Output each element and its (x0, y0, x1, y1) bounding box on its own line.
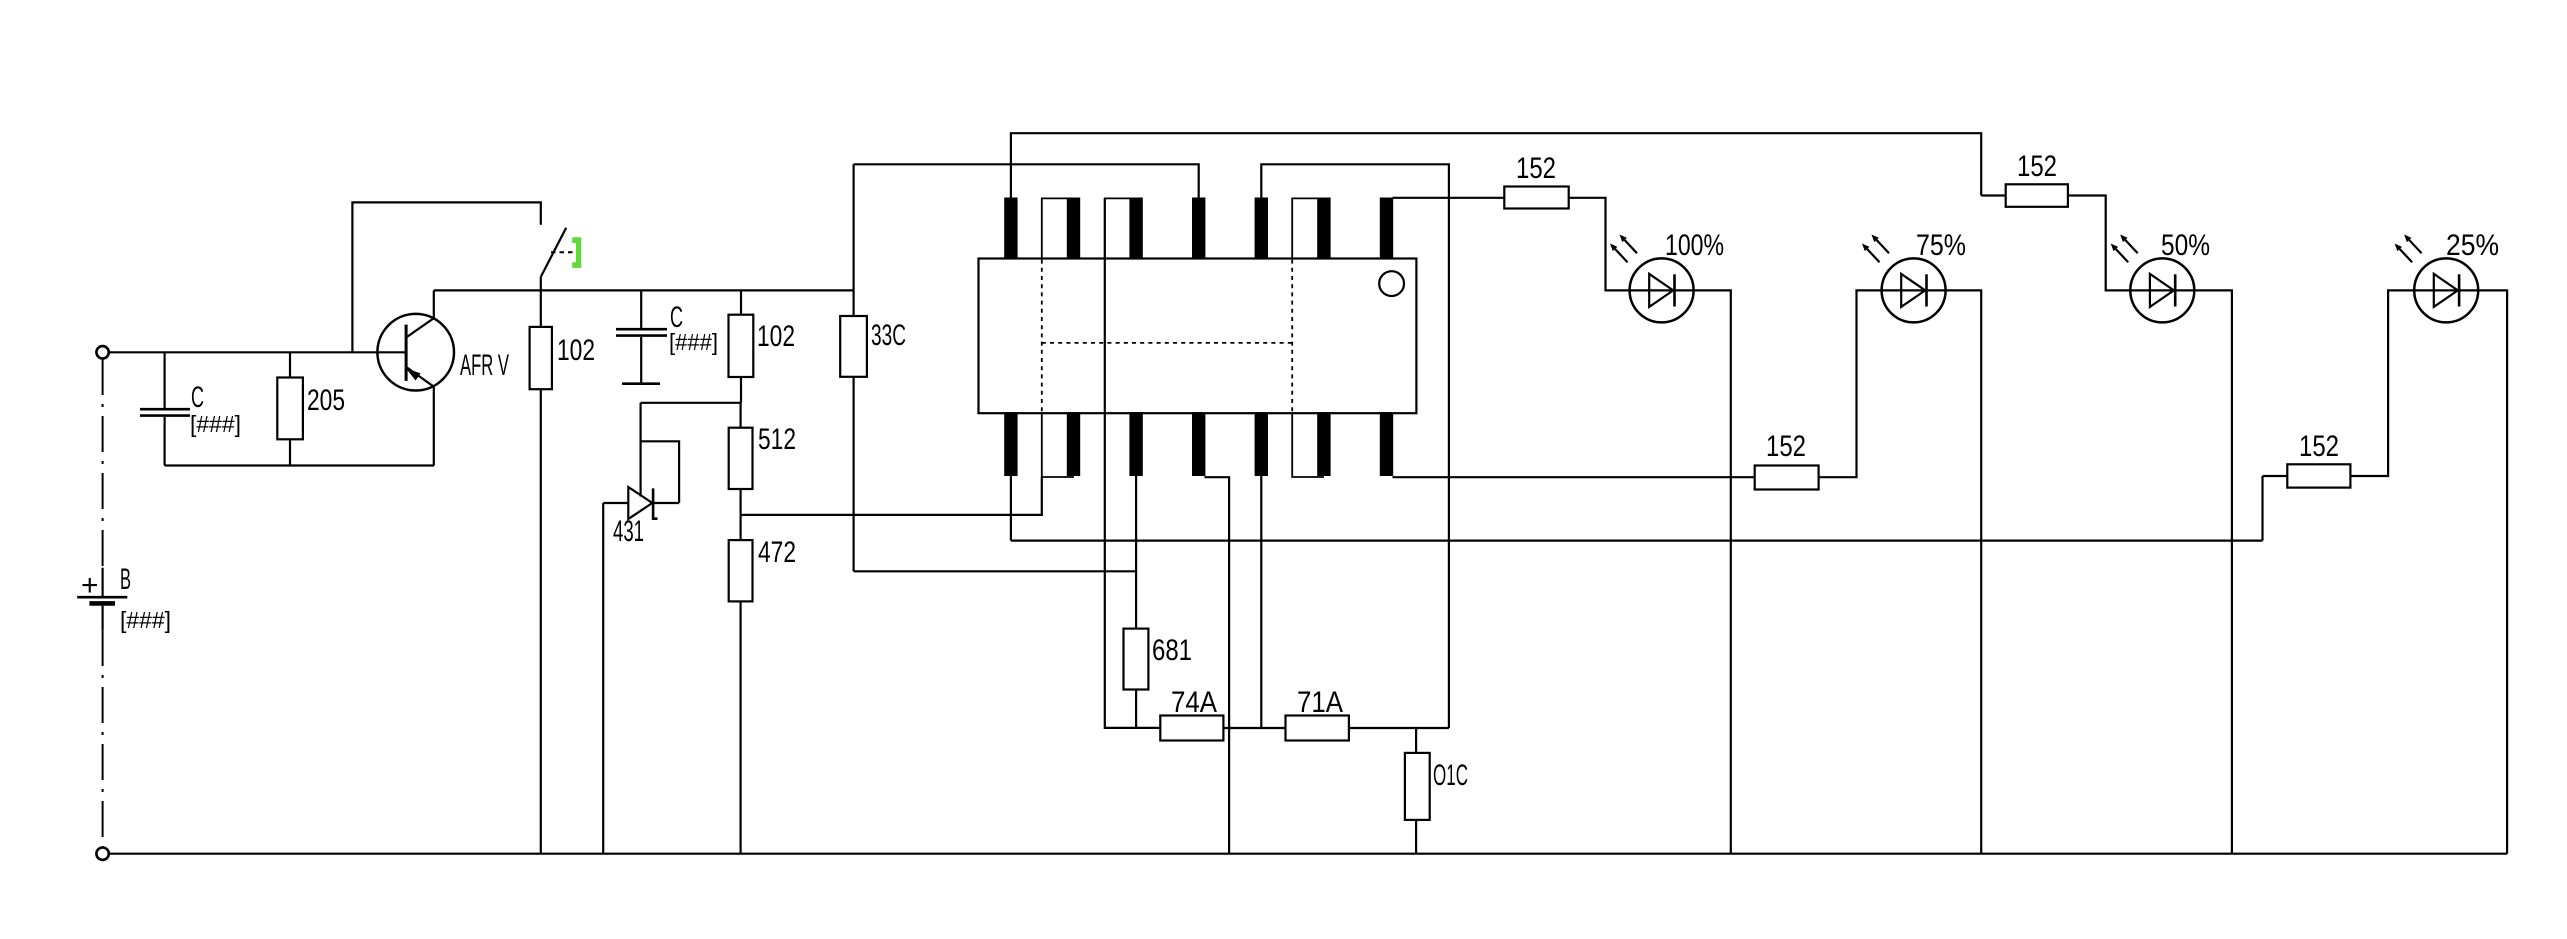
wire LED4 cathode down (2478, 290, 2507, 853)
wire collector riser (433, 290, 435, 318)
IC pin 5 bottom (1255, 412, 1268, 476)
IC pin 3 bottom (1129, 412, 1142, 476)
battery B (77, 359, 171, 847)
wire rail end up to R152d and down to ground (2261, 476, 2263, 541)
svg-text:25%: 25% (2446, 229, 2499, 262)
svg-text:472: 472 (758, 536, 796, 569)
wire node R102b / R512 / D431 (641, 402, 741, 404)
svg-text:512: 512 (758, 423, 796, 456)
svg-text:205: 205 (307, 384, 345, 417)
svg-text:+: + (81, 569, 99, 602)
svg-text:431: 431 (613, 515, 644, 548)
wire emitter riser (433, 387, 435, 466)
svg-text:O1C: O1C (1433, 759, 1468, 792)
svg-text:152: 152 (1766, 430, 1806, 463)
IC U1 body (979, 259, 1417, 414)
wire pin5 bottom down (1260, 475, 1262, 728)
wire pin1 bottom to cathode rail (1010, 475, 1012, 541)
svg-text:75%: 75% (1916, 229, 1966, 262)
resistor R512 (729, 403, 796, 515)
wire D431 anode to ground rail (602, 503, 604, 854)
wire 33C bottom to pin3 column (854, 570, 1137, 572)
wire pin4 bottom jog down (1205, 477, 1230, 854)
svg-text:681: 681 (1152, 634, 1192, 667)
IC pin 3 top with loop (1129, 198, 1142, 260)
wire LED2 cathode down (1946, 290, 1982, 853)
wire bottom of C1/R205 loop to emitter (165, 464, 434, 466)
wire pin3 bottom to R681 (1135, 475, 1137, 629)
svg-text:152: 152 (2299, 430, 2339, 463)
wire LED1 cathode down (1694, 290, 1731, 853)
resistor R102 b (729, 290, 796, 402)
resistor R74A (1160, 686, 1285, 741)
resistor RO1C (1405, 728, 1468, 854)
LED D1 100% (1610, 229, 1724, 322)
wire bottom rail (109, 853, 2507, 855)
svg-text:71A: 71A (1297, 686, 1343, 719)
svg-text:152: 152 (2017, 150, 2057, 183)
resistor R681 (1124, 629, 1193, 728)
LED D2 75% (1862, 229, 1966, 322)
transistor Q1 AFR V (377, 314, 509, 391)
terminal top-left (96, 346, 108, 358)
wire 33C up to rail2-left (852, 164, 854, 290)
wire cathode rail (1011, 539, 2263, 541)
IC pin 1 top (1004, 198, 1017, 260)
resistor R33C (840, 290, 906, 571)
svg-text:50%: 50% (2161, 229, 2210, 262)
IC pin 1 bottom (1004, 412, 1017, 476)
wire pin7 bottom to R152c (1393, 476, 1755, 478)
IC pin 4 top (1192, 198, 1205, 260)
LED D4 25% (2395, 229, 2499, 322)
wire D431 ref (639, 441, 641, 496)
svg-text:74A: 74A (1171, 686, 1217, 719)
resistor R152 c (1755, 290, 1882, 489)
IC pin 4 bottom (1192, 412, 1205, 476)
resistor R205 (277, 352, 345, 465)
IC pin 7 top (1380, 198, 1393, 260)
wire main positive rail (434, 289, 854, 291)
switch SW1 (open) (541, 228, 582, 291)
capacitor C1 [###] (140, 352, 241, 465)
shunt reference D431 (603, 487, 679, 548)
wire rail1 pin1 to R152b (1011, 133, 1981, 198)
wire rail2-right pin5 to long drop (1261, 164, 1449, 728)
IC pin 2 bottom with loop (1067, 412, 1080, 476)
terminal bottom-left (96, 848, 108, 860)
IC pin 6 top with loop (1317, 198, 1330, 260)
svg-text:[###]: [###] (190, 411, 241, 437)
wire pin7 top to R152a (1393, 197, 1505, 199)
LED D3 50% (2111, 229, 2210, 322)
resistor R152 b (1981, 150, 2130, 290)
IC pin 6 bottom with loop (1317, 412, 1330, 476)
svg-text:AFR V: AFR V (460, 349, 509, 382)
svg-text:C: C (191, 381, 204, 414)
wire pin3 through line to 74A (1105, 198, 1161, 728)
wire D431 cathode loop (641, 403, 680, 503)
svg-text:[###]: [###] (120, 607, 171, 633)
resistor R102 a (530, 290, 595, 853)
capacitor C2 [###] (616, 290, 718, 383)
wire base rail from terminal to transistor base (109, 351, 406, 353)
wire feedback node to IC pin2 bottom (741, 477, 1042, 515)
resistor R152 d (2263, 290, 2415, 487)
wire collector top loop (352, 202, 540, 352)
svg-text:102: 102 (557, 334, 595, 367)
resistor R472 (729, 515, 796, 854)
svg-text:102: 102 (757, 320, 795, 353)
svg-text:33C: 33C (871, 319, 906, 352)
wire LED3 cathode to rail (2194, 290, 2232, 853)
resistor R71A (1286, 686, 1449, 741)
svg-text:152: 152 (1516, 152, 1556, 185)
IC pin 2 top with loop (1067, 198, 1080, 260)
wire rail2-left to pin4 (854, 164, 1199, 198)
svg-text:[###]: [###] (669, 329, 718, 355)
IC pin 7 bottom (1380, 412, 1393, 476)
svg-text:B: B (120, 563, 131, 596)
svg-text:100%: 100% (1665, 229, 1724, 262)
IC pin 5 top (1255, 198, 1268, 260)
resistor R152 a (1504, 152, 1629, 290)
